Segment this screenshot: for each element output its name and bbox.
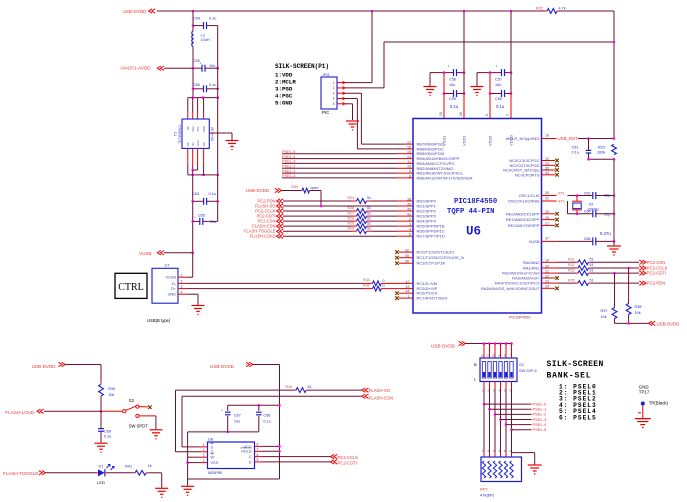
svg-text:PC2-CDTI: PC2-CDTI	[647, 271, 666, 276]
svg-text:RP2: RP2	[480, 487, 489, 492]
svg-text:47k(6P): 47k(6P)	[480, 493, 495, 498]
svg-text:RC0/T1OSO/T13CKI: RC0/T1OSO/T13CKI	[417, 250, 454, 255]
svg-text:C66: C66	[584, 237, 591, 241]
svg-text:10uH: 10uH	[201, 38, 210, 42]
svg-text:R33: R33	[568, 268, 575, 272]
svg-text:VUSB: VUSB	[139, 251, 152, 256]
svg-text:C69: C69	[104, 429, 111, 433]
svg-text:C62: C62	[584, 191, 591, 195]
svg-text:R29: R29	[348, 226, 355, 230]
svg-text:FLASH-TOGGLE: FLASH-TOGGLE	[3, 471, 38, 476]
svg-text:Vin: Vin	[191, 142, 195, 146]
svg-text:C: C	[249, 455, 252, 459]
svg-text:0.1u: 0.1u	[496, 104, 505, 109]
svg-text:51: 51	[590, 278, 594, 282]
svg-text:USB-DVDD: USB-DVDD	[32, 364, 57, 369]
svg-text:U8: U8	[208, 438, 213, 442]
svg-text:TP(Black): TP(Black)	[649, 400, 669, 405]
svg-text:C57: C57	[495, 78, 502, 82]
svg-text:AK4371-AVDD: AK4371-AVDD	[120, 66, 151, 71]
svg-text:R28: R28	[348, 216, 355, 220]
svg-text:0: 0	[383, 284, 385, 288]
svg-text:USB-DVDD: USB-DVDD	[657, 321, 680, 326]
svg-text:10k: 10k	[108, 393, 114, 397]
svg-text:X3: X3	[589, 202, 593, 206]
svg-text:S3: S3	[129, 398, 135, 403]
svg-text:FLASH-LOAD: FLASH-LOAD	[5, 410, 35, 415]
svg-text:6: PSEL5: 6: PSEL5	[559, 414, 597, 421]
svg-text:1: 1	[333, 81, 335, 85]
svg-text:FLASH-CSN: FLASH-CSN	[369, 395, 393, 400]
svg-text:VSS: VSS	[211, 461, 219, 465]
svg-text:29: 29	[439, 112, 443, 116]
svg-text:FLASH-LOAD: FLASH-LOAD	[250, 234, 276, 239]
svg-text:SILK-SCREEN(P1): SILK-SCREEN(P1)	[275, 63, 329, 70]
svg-text:VUSB: VUSB	[529, 239, 540, 244]
svg-text:3: 3	[333, 91, 335, 95]
svg-text:R38: R38	[635, 305, 642, 309]
svg-text:D: D	[249, 460, 252, 464]
svg-text:R30: R30	[292, 185, 299, 189]
svg-text:PSEL-0: PSEL-0	[282, 173, 296, 178]
svg-text:USB-DVDD: USB-DVDD	[431, 344, 456, 349]
svg-text:RE0/AN5/CK1SPP: RE0/AN5/CK1SPP	[506, 211, 540, 216]
svg-text:S2: S2	[519, 362, 525, 367]
svg-text:10k: 10k	[601, 315, 607, 319]
svg-text:GND: GND	[202, 126, 206, 132]
svg-text:+: +	[448, 65, 450, 69]
svg-text:NC: NC	[202, 142, 206, 146]
svg-text:R22: R22	[536, 7, 543, 11]
svg-text:FLASH-SO: FLASH-SO	[369, 388, 391, 393]
svg-text:PC2-CDTI: PC2-CDTI	[338, 461, 357, 466]
svg-text:U6: U6	[466, 225, 481, 239]
svg-text:C56: C56	[193, 83, 200, 87]
svg-text:B: B	[474, 362, 477, 367]
svg-text:R27: R27	[348, 211, 355, 215]
svg-text:51: 51	[590, 258, 594, 262]
svg-text:0.1u: 0.1u	[572, 151, 579, 155]
svg-text:6: 6	[485, 114, 489, 116]
svg-text:18: 18	[545, 134, 549, 138]
svg-text:XTL: XTL	[558, 190, 566, 195]
svg-text:RA5/AN4/SS_N/HLVDIN/C2OUT: RA5/AN4/SS_N/HLVDIN/C2OUT	[481, 286, 540, 291]
svg-text:RB0/AN12/INT0/FLT0/SDI/SDA: RB0/AN12/INT0/FLT0/SDI/SDA	[417, 175, 473, 180]
svg-text:RA0/AN0: RA0/AN0	[523, 260, 540, 265]
svg-text:R35: R35	[568, 278, 575, 282]
svg-text:0: 0	[383, 279, 385, 283]
svg-text:R32: R32	[568, 263, 575, 267]
svg-text:PCL: PCL	[196, 126, 200, 132]
svg-text:HOLD: HOLD	[241, 450, 252, 454]
svg-text:NC: NC	[186, 126, 190, 130]
svg-text:5: 5	[333, 102, 335, 106]
svg-text:L3: L3	[201, 34, 205, 38]
svg-text:0.1u: 0.1u	[263, 419, 270, 423]
svg-text:JP11: JP11	[322, 73, 330, 77]
svg-text:R24: R24	[348, 196, 355, 200]
svg-text:RC2/CCP1/P1A: RC2/CCP1/P1A	[417, 261, 446, 266]
svg-text:SW DIP-6: SW DIP-6	[519, 368, 538, 373]
svg-text:NC: NC	[186, 142, 190, 146]
svg-text:C59: C59	[449, 97, 456, 101]
svg-text:10u: 10u	[234, 419, 240, 423]
svg-text:PIC: PIC	[322, 110, 329, 115]
svg-text:VDD1: VDD1	[462, 135, 467, 146]
svg-text:USB-DVDD: USB-DVDD	[210, 364, 235, 369]
svg-text:USB-DVDD: USB-DVDD	[246, 188, 269, 193]
svg-text:SILK-SCREEN: SILK-SCREEN	[547, 360, 604, 369]
svg-text:C68: C68	[263, 413, 270, 417]
svg-text:NC/ICPORTS: NC/ICPORTS	[515, 172, 540, 177]
svg-text:TQFP 44-PIN: TQFP 44-PIN	[447, 208, 494, 216]
svg-text:D+: D+	[171, 287, 177, 291]
svg-text:RE1/AN6/CK2SPP: RE1/AN6/CK2SPP	[506, 217, 540, 222]
svg-text:M25P80: M25P80	[208, 471, 222, 475]
svg-text:SW SPDT: SW SPDT	[129, 423, 149, 428]
svg-text:+: +	[200, 62, 202, 66]
svg-text:0.1u: 0.1u	[104, 435, 111, 439]
svg-text:Vout: Vout	[191, 126, 195, 132]
svg-text:51: 51	[590, 263, 594, 267]
svg-text:R34: R34	[363, 278, 370, 282]
svg-text:+: +	[221, 409, 223, 413]
svg-text:PIC18F4550: PIC18F4550	[454, 198, 497, 206]
svg-text:51: 51	[367, 221, 371, 225]
svg-text:U7: U7	[165, 264, 170, 268]
svg-text:R37: R37	[601, 309, 608, 313]
svg-text:T1: T1	[174, 132, 178, 136]
svg-text:0.47u: 0.47u	[600, 231, 612, 236]
svg-text:100k: 100k	[597, 151, 605, 155]
svg-text:4:PGC: 4:PGC	[275, 93, 293, 100]
svg-text:USB(B type): USB(B type)	[147, 318, 171, 323]
svg-text:0.1u: 0.1u	[209, 83, 216, 87]
svg-text:51: 51	[367, 196, 371, 200]
svg-text:1:VDD: 1:VDD	[275, 72, 293, 79]
svg-text:R41: R41	[125, 464, 132, 468]
svg-text:C56: C56	[449, 78, 456, 82]
svg-text:C65: C65	[198, 213, 205, 217]
svg-text:10u: 10u	[495, 83, 501, 87]
svg-text:22p: 22p	[604, 213, 610, 217]
svg-text:XTL: XTL	[558, 198, 566, 203]
svg-text:10k: 10k	[635, 311, 641, 315]
svg-text:4.7k: 4.7k	[559, 7, 566, 11]
svg-text:R23: R23	[598, 145, 605, 149]
svg-text:TP17: TP17	[639, 390, 650, 395]
svg-text:PC2-CCLK: PC2-CCLK	[338, 455, 359, 460]
svg-text:3:PGD: 3:PGD	[275, 86, 293, 93]
svg-text:37: 37	[545, 236, 549, 240]
svg-text:VSS0: VSS0	[488, 135, 493, 146]
svg-text:2: 2	[333, 86, 335, 90]
svg-text:10u: 10u	[210, 220, 216, 224]
svg-text:W: W	[211, 456, 215, 460]
svg-text:RE2/AN7/OESPP: RE2/AN7/OESPP	[508, 223, 540, 228]
svg-text:C67: C67	[234, 413, 241, 417]
svg-text:7: 7	[506, 114, 510, 116]
svg-text:10u: 10u	[449, 83, 455, 87]
svg-text:open: open	[311, 186, 319, 190]
svg-text:VUSB: VUSB	[166, 276, 177, 280]
svg-text:OSC1/CLKI: OSC1/CLKI	[519, 193, 540, 198]
svg-text:MCLR_N/Vpp/RE3: MCLR_N/Vpp/RE3	[506, 136, 540, 141]
svg-text:51: 51	[308, 385, 312, 389]
svg-text:D1: D1	[99, 464, 104, 468]
svg-text:BANK-SEL: BANK-SEL	[547, 371, 592, 380]
svg-text:LED: LED	[97, 480, 105, 485]
svg-text:0.1u: 0.1u	[209, 192, 216, 196]
svg-text:31: 31	[545, 197, 549, 201]
svg-text:+: +	[496, 65, 498, 69]
svg-text:R39: R39	[108, 387, 115, 391]
svg-text:PIC18F4550: PIC18F4550	[509, 316, 530, 320]
svg-text:R25: R25	[348, 221, 355, 225]
svg-text:PC2-CSN: PC2-CSN	[647, 260, 665, 265]
svg-text:4: 4	[333, 97, 335, 101]
svg-text:C61: C61	[572, 145, 579, 149]
svg-text:22p: 22p	[604, 194, 610, 198]
svg-text:USB_RST: USB_RST	[558, 136, 579, 141]
svg-text:51: 51	[367, 211, 371, 215]
svg-text:30: 30	[545, 191, 549, 195]
svg-text:Vout: Vout	[196, 140, 200, 146]
svg-text:CTRL: CTRL	[118, 282, 144, 293]
svg-text:1k: 1k	[148, 464, 152, 468]
svg-text:C54: C54	[193, 17, 200, 21]
svg-text:GND: GND	[168, 293, 177, 297]
svg-text:10u: 10u	[209, 64, 215, 68]
svg-text:51: 51	[367, 206, 371, 210]
svg-text:5V⇒3.3V: 5V⇒3.3V	[211, 126, 215, 141]
svg-text:PC2-PDN: PC2-PDN	[647, 281, 665, 286]
svg-text:51: 51	[590, 268, 594, 272]
svg-text:RC7/RX/DT/SDO: RC7/RX/DT/SDO	[417, 296, 448, 301]
svg-text:51: 51	[367, 226, 371, 230]
svg-text:R31: R31	[568, 258, 575, 262]
svg-text:C63: C63	[192, 192, 199, 196]
svg-text:28: 28	[459, 112, 463, 116]
svg-text:GND: GND	[639, 384, 649, 389]
svg-text:5:GND: 5:GND	[275, 100, 293, 107]
svg-text:0.1u: 0.1u	[209, 17, 216, 21]
svg-text:51: 51	[367, 216, 371, 220]
svg-text:0.1u: 0.1u	[450, 104, 459, 109]
svg-text:TK71530SCL: TK71530SCL	[178, 124, 182, 143]
svg-text:RC1/T1OSI/CCP2/UOE_N: RC1/T1OSI/CCP2/UOE_N	[417, 255, 464, 260]
svg-text:+: +	[194, 216, 196, 220]
svg-text:USB-DVDD: USB-DVDD	[123, 9, 148, 14]
svg-text:OSC2/CLKO/RA6: OSC2/CLKO/RA6	[508, 199, 541, 204]
svg-text:C60: C60	[495, 97, 502, 101]
svg-text:PSEL-5: PSEL-5	[533, 427, 548, 432]
svg-text:R26: R26	[348, 206, 355, 210]
svg-text:R40: R40	[286, 385, 293, 389]
svg-text:RD7/SPP7/P1D: RD7/SPP7/P1D	[417, 234, 445, 239]
svg-text:2:MCLR: 2:MCLR	[275, 79, 296, 86]
svg-text:R36: R36	[363, 283, 370, 287]
svg-text:20MHz: 20MHz	[588, 208, 600, 212]
